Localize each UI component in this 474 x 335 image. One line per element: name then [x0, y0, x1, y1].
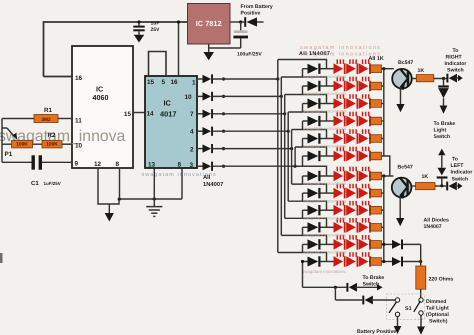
LED row 9 #2 — [346, 205, 356, 216]
LED row 1 #3 — [359, 63, 369, 74]
wire to S1 — [334, 286, 337, 289]
IC U2 4060 body — [72, 46, 133, 168]
svg-text:Positive: Positive — [241, 11, 261, 17]
svg-text:swagatam innovations: swagatam innovations — [300, 45, 381, 51]
wire right bus bottom group — [383, 176, 385, 262]
svg-text:1K: 1K — [422, 174, 429, 180]
diode row 4 1N4007 — [303, 120, 308, 122]
ground at Q2 emitter — [399, 197, 401, 218]
IC U1 4017 body — [145, 76, 197, 168]
switch S1 box — [387, 294, 425, 320]
svg-text:100K: 100K — [16, 142, 28, 148]
diode output 5 1N4007 — [197, 148, 203, 150]
svg-text:Switch: Switch — [447, 67, 464, 73]
ground at 1uF — [134, 35, 144, 43]
LED row 10 #2 — [346, 222, 356, 233]
wire output 1 — [213, 78, 278, 80]
svg-text:All Diodes: All Diodes — [424, 218, 449, 224]
svg-text:R1: R1 — [44, 107, 52, 114]
switch S1 pole A — [395, 298, 399, 302]
svg-text:25V: 25V — [151, 27, 161, 33]
diode output 2 1N4007 — [197, 95, 203, 97]
LED row 7 #1 — [334, 171, 344, 182]
svg-text:Dimmed: Dimmed — [426, 299, 446, 305]
wire bus node 6 — [294, 147, 296, 166]
wire stub row 4 — [302, 121, 304, 130]
svg-text:Switch: Switch — [452, 177, 469, 183]
diode row 8 1N4007 — [303, 192, 308, 194]
svg-text:Indicator: Indicator — [451, 170, 473, 176]
wire stub row 6 — [302, 156, 304, 166]
LED row 8 #2 — [346, 188, 356, 199]
diode row 10 1N4007 — [303, 226, 308, 228]
LED row 12 #3 — [359, 256, 369, 267]
svg-text:To Brake: To Brake — [434, 121, 456, 127]
svg-text:16: 16 — [171, 79, 179, 86]
edge mark — [0, 253, 3, 263]
svg-text:2: 2 — [190, 147, 194, 154]
ground at 7812 — [208, 44, 210, 52]
LED row 7 #3 — [359, 171, 369, 182]
LED row 2 #2 — [346, 81, 356, 92]
resistor 1K row 7 — [371, 172, 382, 180]
LED row 5 #1 — [334, 133, 344, 144]
svg-text:1N4007: 1N4007 — [203, 181, 223, 188]
wire row 3 to bus — [382, 103, 384, 105]
svg-text:swagatam innovations: swagatam innovations — [303, 74, 347, 79]
wire bus node 4 — [287, 112, 289, 201]
svg-text:Light: Light — [434, 128, 447, 134]
resistor 1K row 6 — [371, 152, 382, 160]
svg-text:swagatam innovations: swagatam innovations — [303, 144, 347, 149]
LED row 11 #2 — [346, 239, 356, 250]
resistor 1K at Q2 — [416, 183, 436, 190]
svg-text:16: 16 — [75, 75, 83, 82]
svg-text:1uF/25V: 1uF/25V — [44, 181, 61, 186]
wire row7 to Q2 base — [382, 175, 394, 177]
resistor 220 Ohms — [416, 266, 426, 289]
diode row 7 1N4007 — [303, 175, 308, 177]
diode to right indicator — [446, 74, 448, 83]
LED row 2 #1 — [334, 81, 344, 92]
wire rail to pin16 — [44, 76, 73, 78]
resistor R1 2M2 — [2, 118, 34, 120]
svg-text:All 1K: All 1K — [369, 56, 384, 62]
wire stub row 1 — [302, 69, 304, 77]
LED row 6 #2 — [346, 151, 356, 162]
svg-text:7: 7 — [190, 111, 194, 118]
wire stub row 2 — [302, 86, 304, 95]
wire bypass top row 3 — [285, 95, 327, 104]
resistor 1K row 9 — [371, 206, 382, 214]
LED row 4 #3 — [359, 116, 369, 127]
wire stub row 10 — [302, 227, 304, 235]
diode row 6 1N4007 — [303, 155, 308, 157]
diode row 11 1N4007 — [303, 243, 308, 245]
svg-text:2M2: 2M2 — [41, 117, 51, 123]
svg-text:C1: C1 — [31, 180, 39, 187]
resistor 1K row 4 — [371, 117, 382, 125]
wire Q1 node — [434, 78, 447, 80]
capacitor C1 1uF/25V — [2, 161, 32, 163]
svg-text:swagatam innovations: swagatam innovations — [303, 198, 347, 203]
wire stub row 5 — [302, 139, 304, 148]
svg-text:Battery Positive: Battery Positive — [357, 329, 396, 335]
wire stub row 7 — [302, 176, 304, 184]
LED row 9 #1 — [334, 205, 344, 216]
svg-text:To Brake: To Brake — [363, 275, 385, 281]
resistor R2 100K — [42, 141, 62, 148]
svg-text:Indicator: Indicator — [445, 61, 467, 67]
diode output 6 1N4007 — [197, 165, 203, 167]
diode row 5 1N4007 — [303, 138, 308, 140]
wire row 5 to bus — [382, 138, 384, 140]
LED row 7 #2 — [346, 171, 356, 182]
svg-text:4060: 4060 — [93, 93, 109, 102]
svg-text:All: All — [203, 174, 211, 181]
svg-text:swagatam innovations: swagatam innovations — [303, 126, 347, 131]
resistor 1K row 5 — [371, 135, 382, 143]
diode row 3 1N4007 — [303, 103, 308, 105]
LED row 9 #3 — [359, 205, 369, 216]
resistor 1K row 10 — [371, 224, 382, 232]
svg-text:RIGHT: RIGHT — [446, 54, 463, 60]
svg-text:8: 8 — [116, 161, 120, 168]
LED row 5 #2 — [346, 133, 356, 144]
svg-text:swagatam innovations: swagatam innovations — [303, 109, 347, 114]
svg-text:100K: 100K — [46, 142, 58, 148]
wire output 5 — [213, 148, 292, 150]
LED row 10 #3 — [359, 222, 369, 233]
svg-text:11: 11 — [75, 118, 82, 125]
svg-text:1N4007: 1N4007 — [424, 224, 442, 230]
ground symbol hatched — [153, 199, 155, 206]
wire stub row 3 — [302, 104, 304, 113]
wire row 2 to bus — [382, 85, 384, 87]
diode output 4 1N4007 — [197, 130, 203, 132]
wire bypass bottom row 9 — [288, 201, 326, 210]
svg-text:15: 15 — [124, 111, 132, 118]
svg-text:P1: P1 — [5, 151, 13, 158]
LED row 11 #3 — [359, 239, 369, 250]
battery positive arrow left — [397, 317, 399, 326]
wire bypass top row 1 — [278, 60, 327, 69]
resistor 1K row 12 — [371, 258, 382, 266]
svg-text:swagatam innovations: swagatam innovations — [303, 181, 347, 186]
svg-text:LEFT: LEFT — [451, 163, 465, 169]
wire from battery — [257, 21, 264, 23]
svg-text:swagatam innovations: swagatam innovations — [303, 91, 347, 96]
svg-text:(Optional: (Optional — [426, 312, 449, 318]
svg-text:1K: 1K — [418, 68, 425, 74]
svg-text:To: To — [452, 157, 458, 163]
transistor Q1 Bc547 — [392, 69, 412, 89]
wire brake feed — [302, 262, 304, 288]
regulator IC 7812 — [188, 4, 231, 45]
wire 4060 pin15 to 4017 pin14 — [133, 112, 145, 114]
svg-text:S1: S1 — [405, 306, 412, 312]
LED row 4 #1 — [334, 116, 344, 127]
wire 7812 output — [230, 21, 244, 23]
resistor 1K row 2 — [371, 82, 382, 90]
svg-text:1: 1 — [192, 80, 196, 87]
resistor 1K row 3 — [371, 100, 382, 108]
wire stub row 11 — [302, 244, 304, 252]
diode row 2 1N4007 — [303, 85, 308, 87]
resistor 1K row 8 — [371, 189, 382, 197]
svg-text:15: 15 — [147, 79, 155, 86]
svg-text:12: 12 — [94, 161, 102, 168]
diode output 3 1N4007 — [197, 113, 203, 115]
preset P1 100K with wiper arrow — [2, 127, 7, 129]
wire 4017 pin16 to rail — [178, 22, 180, 76]
LED row 6 #1 — [334, 151, 344, 162]
diode input 1N4007 at 7812 — [244, 17, 246, 27]
diode row 12 1N4007 — [303, 261, 308, 263]
svg-text:To: To — [453, 48, 459, 54]
battery positive arrow right — [420, 315, 422, 326]
svg-text:swagatam innovations: swagatam innovations — [303, 250, 347, 255]
LED row 5 #3 — [359, 133, 369, 144]
LED row 11 #1 — [334, 239, 344, 250]
wire loop pin15 to pin5 — [149, 52, 167, 77]
wire bus node 5 — [291, 130, 293, 185]
wire bypass bottom row 10 — [285, 218, 327, 227]
svg-text:4: 4 — [190, 129, 194, 136]
wire Q2 collector — [411, 185, 415, 187]
LED row 12 #2 — [346, 256, 356, 267]
svg-text:220 Ohms: 220 Ohms — [429, 277, 454, 283]
capacitor 100uF/25V — [239, 20, 242, 23]
LED row 3 #2 — [346, 98, 356, 109]
diode brake 1 — [346, 283, 348, 292]
LED row 8 #3 — [359, 188, 369, 199]
wire row 8 to bus — [382, 192, 384, 194]
wire row 10 to bus — [382, 226, 384, 228]
wire output 6 — [213, 165, 327, 167]
wire 4017 pin13 down — [153, 168, 155, 199]
svg-text:1uF: 1uF — [151, 21, 160, 27]
wire +12V rail top — [44, 22, 188, 77]
LED row 4 #2 — [346, 116, 356, 127]
wire row 9 to bus — [382, 209, 384, 211]
svg-text:10: 10 — [185, 94, 193, 101]
svg-text:13: 13 — [148, 162, 156, 169]
svg-text:Switch: Switch — [363, 282, 380, 288]
svg-text:9: 9 — [75, 161, 79, 168]
diode row 1 1N4007 — [303, 68, 308, 70]
wire bypass bottom row 7 — [295, 166, 326, 176]
svg-text:IC: IC — [164, 99, 172, 108]
wire row1 to Q1 base — [382, 68, 394, 70]
wire jog row6 to row7 — [382, 156, 390, 176]
capacitor 1uF/25V — [138, 22, 140, 26]
LED row 8 #1 — [334, 188, 344, 199]
resistor 1K at Q1 — [416, 75, 434, 82]
ground at 4060 pin 12 — [98, 168, 119, 204]
wire bypass bottom row 8 — [292, 184, 327, 193]
resistor 1K row 1 — [371, 65, 382, 73]
wire Q2 node — [435, 185, 446, 187]
svg-text:From Battery: From Battery — [241, 4, 273, 10]
svg-text:4017: 4017 — [160, 110, 176, 119]
ground at Q1 emitter — [400, 88, 402, 104]
wire Q1 collector — [412, 78, 417, 80]
svg-text:5: 5 — [162, 79, 166, 86]
wire row 4 to bus — [382, 120, 384, 122]
diode tap row11 — [382, 243, 393, 245]
wire left rail oscillator — [1, 119, 3, 163]
svg-text:3: 3 — [190, 162, 194, 169]
wire bypass bottom row 11 — [281, 235, 326, 244]
diode to brake light from Q1 node — [443, 79, 445, 86]
svg-text:Bc547: Bc547 — [398, 60, 413, 66]
LED row 2 #3 — [359, 81, 369, 92]
switch S1 pole B — [419, 298, 423, 302]
svg-text:All 1N4007: All 1N4007 — [299, 51, 330, 57]
wire bus node 3 — [284, 95, 286, 219]
svg-text:R2: R2 — [48, 132, 56, 139]
svg-text:IC 7812: IC 7812 — [196, 19, 222, 28]
LED row 3 #3 — [359, 98, 369, 109]
diode brake 2 — [362, 296, 364, 305]
wire bus node 1 — [277, 60, 279, 253]
ground wire under ICs — [119, 198, 182, 200]
LED row 10 #1 — [334, 222, 344, 233]
wire to 220 ohms — [420, 244, 422, 266]
wire output 2 — [213, 95, 282, 97]
diode to left indicator — [446, 182, 448, 191]
diode output 1 1N4007 — [197, 78, 203, 80]
LED row 12 #1 — [334, 256, 344, 267]
wire 4060 pin8 down — [119, 168, 121, 199]
wire bypass bottom row 12 — [278, 253, 327, 262]
svg-text:swagatam innovations: swagatam innovations — [302, 269, 346, 274]
diode row 9 1N4007 — [303, 209, 308, 211]
svg-text:swagatam innovations: swagatam innovations — [303, 233, 347, 238]
wire bypass top row 4 — [288, 112, 326, 121]
wire bus node 2 — [280, 77, 282, 235]
wire stub row 9 — [302, 210, 304, 218]
svg-text:100uF/25V: 100uF/25V — [237, 52, 262, 58]
wire stub row 8 — [302, 193, 304, 201]
wire bypass top row 2 — [281, 77, 326, 86]
svg-text:Bc547: Bc547 — [398, 165, 413, 171]
svg-text:Switch): Switch) — [429, 319, 448, 325]
svg-text:8: 8 — [178, 162, 182, 169]
wire output 3 — [213, 113, 285, 115]
svg-text:swagatam innovations: swagatam innovations — [303, 215, 347, 220]
wire right bus top group — [383, 69, 385, 156]
svg-text:Switch: Switch — [434, 134, 451, 140]
transistor Q2 Bc547 — [392, 178, 412, 198]
LED row 1 #2 — [346, 63, 356, 74]
diode tap row12 — [382, 261, 393, 263]
resistor 1K row 11 — [371, 241, 382, 249]
svg-text:10: 10 — [75, 143, 83, 150]
wire 4017 pin8 down — [181, 168, 183, 199]
LED row 3 #1 — [334, 98, 344, 109]
svg-text:Tail Light: Tail Light — [426, 306, 449, 312]
diode from brake to Q2 node — [438, 149, 445, 156]
wire output 4 — [213, 130, 289, 132]
svg-text:14: 14 — [147, 111, 155, 118]
LED row 6 #3 — [359, 151, 369, 162]
wire bypass top row 5 — [292, 130, 327, 139]
LED row 1 #1 — [334, 63, 344, 74]
wire bypass top row 6 — [295, 147, 326, 156]
